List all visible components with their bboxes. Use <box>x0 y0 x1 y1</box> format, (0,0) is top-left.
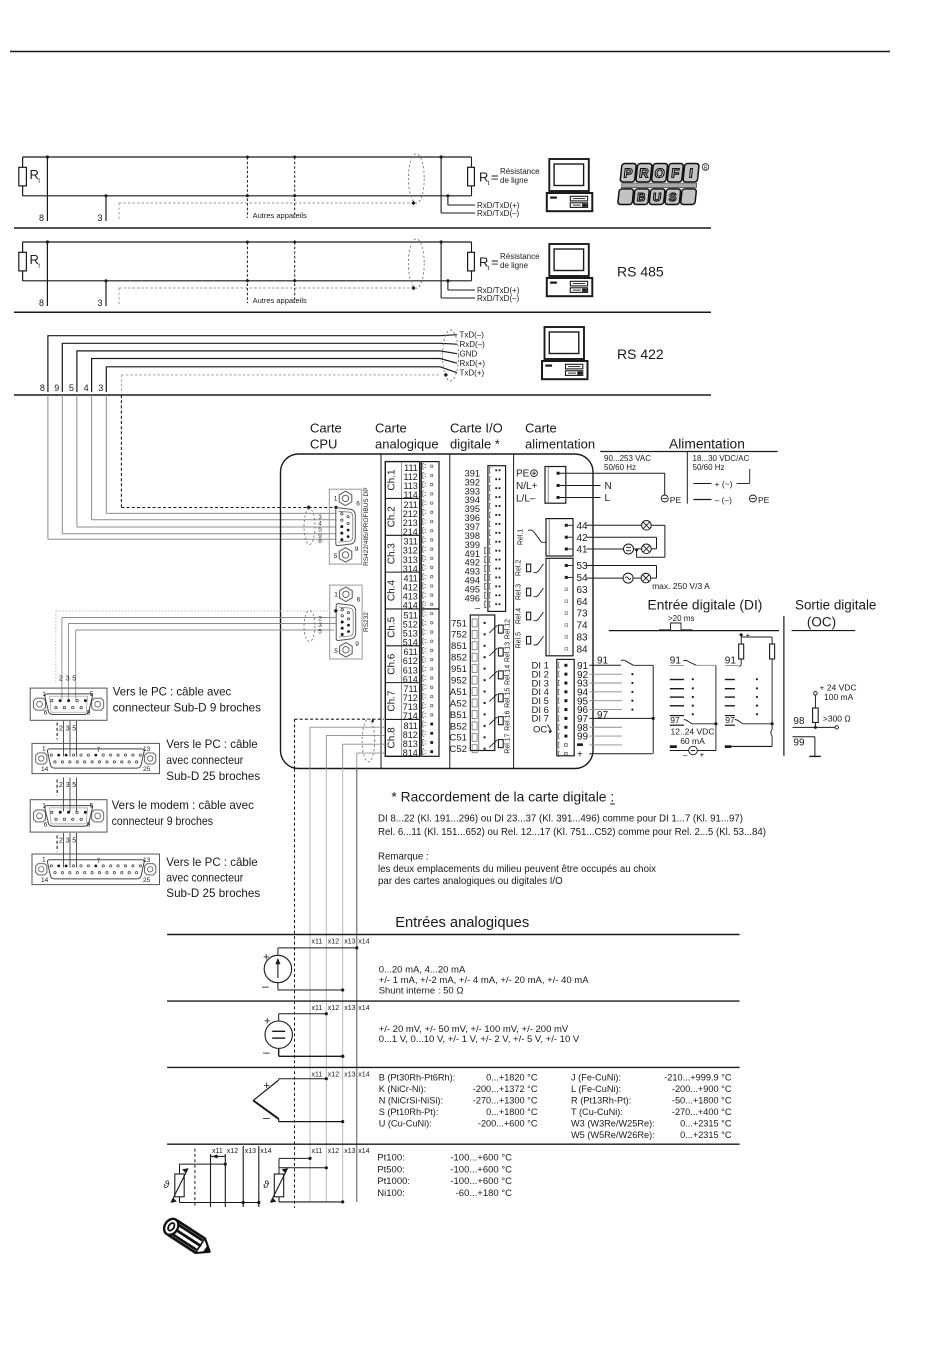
svg-text:RxD/TxD(+): RxD/TxD(+) <box>477 201 520 210</box>
svg-text:5: 5 <box>72 726 76 733</box>
svg-text:6: 6 <box>357 597 361 604</box>
svg-text:9: 9 <box>355 641 359 648</box>
svg-text:Sub-D 25 broches: Sub-D 25 broches <box>166 770 260 783</box>
svg-text:x13: x13 <box>344 1148 355 1155</box>
svg-text:Autres appareils: Autres appareils <box>253 296 307 305</box>
svg-text:Pt500:: Pt500: <box>377 1164 404 1175</box>
svg-text:de ligne: de ligne <box>500 176 529 185</box>
svg-text:B (Pt30Rh-Pt6Rh):: B (Pt30Rh-Pt6Rh): <box>379 1072 456 1082</box>
svg-text:-200...+900 °C: -200...+900 °C <box>672 1084 732 1094</box>
svg-text:814: 814 <box>403 748 418 758</box>
svg-text:3: 3 <box>97 213 102 223</box>
svg-text:-200...+1372 °C: -200...+1372 °C <box>473 1084 538 1094</box>
svg-text:8: 8 <box>39 213 44 223</box>
svg-text:6: 6 <box>44 710 48 717</box>
svg-text:3: 3 <box>98 383 103 393</box>
svg-text:8: 8 <box>39 298 44 308</box>
svg-text:Ch.8: Ch.8 <box>386 727 397 749</box>
svg-text:Rel.2: Rel.2 <box>515 560 522 576</box>
svg-text:ϑ: ϑ <box>164 1179 171 1191</box>
svg-text:t: t <box>38 263 40 270</box>
svg-text:RS232: RS232 <box>363 612 370 632</box>
svg-text:6: 6 <box>44 821 48 828</box>
svg-text:-60...+180 °C: -60...+180 °C <box>456 1188 512 1199</box>
svg-text:-270...+1300 °C: -270...+1300 °C <box>473 1095 538 1105</box>
svg-text:N: N <box>605 481 612 492</box>
svg-text:0...+2315 °C: 0...+2315 °C <box>680 1118 732 1128</box>
svg-text:K (NiCr-Ni):: K (NiCr-Ni): <box>379 1084 426 1094</box>
svg-text:ϑ: ϑ <box>263 1179 270 1191</box>
svg-text:Autres appareils: Autres appareils <box>253 211 307 220</box>
svg-text:L/L–: L/L– <box>516 494 536 505</box>
svg-text:A52: A52 <box>450 698 467 709</box>
svg-text:514: 514 <box>403 638 418 648</box>
svg-text:x11: x11 <box>312 1072 323 1079</box>
svg-text:Entrée digitale (DI): Entrée digitale (DI) <box>648 597 763 613</box>
svg-text:DI 7: DI 7 <box>532 714 549 725</box>
svg-text:=: = <box>491 170 499 185</box>
svg-text:T (Cu-CuNi):: T (Cu-CuNi): <box>571 1107 623 1117</box>
svg-text:RxD(+): RxD(+) <box>460 359 486 368</box>
svg-text:PE: PE <box>670 495 682 505</box>
svg-text:Ch.1: Ch.1 <box>386 469 397 491</box>
svg-text:>300 Ω: >300 Ω <box>823 713 851 723</box>
svg-text:-200...+600 °C: -200...+600 °C <box>478 1118 538 1128</box>
svg-text:12..24 VDC: 12..24 VDC <box>671 726 715 736</box>
svg-text:R (Pt13Rh-Pt):: R (Pt13Rh-Pt): <box>571 1095 631 1105</box>
svg-text:9: 9 <box>87 821 91 828</box>
svg-text:+: + <box>263 952 269 964</box>
svg-text:751: 751 <box>451 618 467 629</box>
svg-text:99: 99 <box>577 732 589 743</box>
svg-text:Rel.17: Rel.17 <box>505 733 512 753</box>
svg-text:41: 41 <box>577 545 589 556</box>
svg-text:5: 5 <box>72 676 76 683</box>
svg-text:Carte: Carte <box>310 421 342 436</box>
svg-text:+: + <box>264 1080 270 1092</box>
svg-text:connecteur 9 broches: connecteur 9 broches <box>112 815 214 828</box>
svg-text:x12: x12 <box>328 1005 339 1012</box>
svg-text:Rel.12: Rel.12 <box>505 619 512 639</box>
svg-text:par des cartes analogiques ou: par des cartes analogiques ou digitales … <box>378 876 563 887</box>
svg-text:314: 314 <box>403 564 418 574</box>
svg-text:9: 9 <box>54 383 59 393</box>
svg-text:0...+2315 °C: 0...+2315 °C <box>680 1130 732 1140</box>
svg-text:B52: B52 <box>450 721 467 732</box>
svg-text:x11: x11 <box>312 1005 323 1012</box>
svg-text:852: 852 <box>451 653 467 664</box>
svg-text:–: – <box>262 979 269 993</box>
svg-text:x11: x11 <box>312 1148 323 1155</box>
svg-text:84: 84 <box>577 644 589 655</box>
svg-text:L (Fe-CuNi):: L (Fe-CuNi): <box>571 1084 621 1094</box>
svg-text:50/60 Hz: 50/60 Hz <box>604 463 636 472</box>
svg-text:2: 2 <box>59 838 63 845</box>
svg-text:-100...+600 °C: -100...+600 °C <box>450 1153 512 1164</box>
svg-text:x14: x14 <box>358 1072 369 1079</box>
svg-text:14: 14 <box>41 766 49 773</box>
svg-text:14: 14 <box>41 877 49 884</box>
svg-text:Sortie digitale: Sortie digitale <box>795 598 876 613</box>
svg-text:Rel.1: Rel.1 <box>518 529 525 545</box>
svg-text:Ch.2: Ch.2 <box>386 506 397 528</box>
svg-text:x12: x12 <box>328 1072 339 1079</box>
svg-text:42: 42 <box>577 533 589 544</box>
svg-text:25: 25 <box>143 766 151 773</box>
svg-text:Remarque :: Remarque : <box>378 852 429 863</box>
svg-text:99: 99 <box>793 737 805 748</box>
svg-text:-210...+999.9 °C: -210...+999.9 °C <box>664 1072 732 1082</box>
svg-text:avec connecteur: avec connecteur <box>166 872 243 885</box>
svg-text:DI 8...22 (Kl. 191...296) ou D: DI 8...22 (Kl. 191...296) ou DI 23...37 … <box>378 814 743 825</box>
svg-text:–: – <box>683 751 688 760</box>
svg-text:x12: x12 <box>227 1148 238 1155</box>
svg-text:44: 44 <box>577 521 589 532</box>
svg-text:+: + <box>264 1016 270 1028</box>
svg-text:114: 114 <box>403 490 417 500</box>
svg-text:97: 97 <box>597 710 609 721</box>
svg-text:R: R <box>704 166 708 172</box>
svg-text:5: 5 <box>334 553 338 560</box>
svg-text:de ligne: de ligne <box>500 261 529 270</box>
svg-text:851: 851 <box>451 641 467 652</box>
svg-text:-100...+600 °C: -100...+600 °C <box>450 1164 512 1175</box>
svg-text:5: 5 <box>90 803 94 810</box>
svg-text:les deux emplacements du milie: les deux emplacements du milieu peuvent … <box>378 864 656 875</box>
svg-text:U (Cu-CuNi):: U (Cu-CuNi): <box>379 1118 432 1128</box>
svg-text:5: 5 <box>90 691 94 698</box>
svg-text:N/L+: N/L+ <box>516 481 538 492</box>
svg-text:x12: x12 <box>328 1148 339 1155</box>
svg-text:– (–): – (–) <box>715 495 733 505</box>
svg-text:5: 5 <box>72 782 76 789</box>
svg-text:Shunt interne : 50 Ω: Shunt interne : 50 Ω <box>379 986 464 997</box>
svg-text:64: 64 <box>577 597 589 608</box>
svg-text:Entrées analogiques: Entrées analogiques <box>395 915 529 931</box>
svg-text:Rel.16: Rel.16 <box>505 710 512 730</box>
svg-text:951: 951 <box>451 664 467 675</box>
svg-text:x11: x11 <box>212 1148 223 1155</box>
svg-text:RxD/TxD(–): RxD/TxD(–) <box>477 209 520 218</box>
svg-text:25: 25 <box>143 877 151 884</box>
svg-text:+: + <box>700 751 705 760</box>
svg-text:S: S <box>668 192 677 204</box>
svg-text:N (NiCrSi-NiSi):: N (NiCrSi-NiSi): <box>379 1095 443 1105</box>
svg-text:Pt1000:: Pt1000: <box>377 1176 410 1187</box>
svg-text:74: 74 <box>577 621 589 632</box>
svg-text:Vers le PC : câble avec: Vers le PC : câble avec <box>113 686 232 699</box>
svg-text:U: U <box>652 192 662 204</box>
svg-text:Alimentation: Alimentation <box>669 437 745 452</box>
svg-text:2: 2 <box>59 782 63 789</box>
svg-text:Ch.5: Ch.5 <box>386 616 397 638</box>
svg-text:Ni100:: Ni100: <box>377 1188 404 1199</box>
svg-text:Carte I/O: Carte I/O <box>450 421 503 436</box>
svg-text:3: 3 <box>66 676 70 683</box>
svg-text:8: 8 <box>318 538 322 545</box>
svg-text:9: 9 <box>355 546 359 553</box>
svg-text:x12: x12 <box>328 939 339 946</box>
svg-text:Ch.6: Ch.6 <box>386 653 397 675</box>
svg-text:t: t <box>38 178 40 185</box>
svg-text:x14: x14 <box>358 939 369 946</box>
svg-text:3: 3 <box>66 726 70 733</box>
svg-text:TxD(+): TxD(+) <box>460 369 485 378</box>
svg-text:=: = <box>491 255 499 270</box>
svg-text:Ch.7: Ch.7 <box>386 690 397 712</box>
svg-text:S (Pt10Rh-Pt):: S (Pt10Rh-Pt): <box>379 1107 439 1117</box>
svg-text:J (Fe-CuNi):: J (Fe-CuNi): <box>571 1072 621 1082</box>
svg-text:Rel.14: Rel.14 <box>505 665 512 685</box>
svg-text:714: 714 <box>403 711 418 721</box>
svg-text:1: 1 <box>42 691 46 698</box>
svg-text:(OC): (OC) <box>807 615 836 630</box>
svg-text:Vers le PC : câble: Vers le PC : câble <box>166 856 257 869</box>
svg-text:Carte: Carte <box>375 421 407 436</box>
svg-text:digitale *: digitale * <box>450 437 500 452</box>
svg-text:0...+1800 °C: 0...+1800 °C <box>486 1107 538 1117</box>
svg-text:W5 (W5Re/W26Re):: W5 (W5Re/W26Re): <box>571 1130 655 1140</box>
svg-text:97: 97 <box>670 715 680 725</box>
svg-text:54: 54 <box>577 573 589 584</box>
svg-text:0...+1820 °C: 0...+1820 °C <box>486 1072 538 1082</box>
svg-text:RS422/485/PROFIBUS DP: RS422/485/PROFIBUS DP <box>363 487 370 565</box>
svg-text:18...30 VDC/AC: 18...30 VDC/AC <box>693 454 750 463</box>
svg-text:3: 3 <box>66 838 70 845</box>
svg-text:100 mA: 100 mA <box>824 692 854 702</box>
svg-text:Rel.4: Rel.4 <box>515 608 522 624</box>
svg-text:max. 250 V/3 A: max. 250 V/3 A <box>652 581 710 591</box>
svg-text:50/60 Hz: 50/60 Hz <box>693 463 725 472</box>
svg-text:98: 98 <box>793 716 805 727</box>
svg-text:O: O <box>654 166 666 181</box>
svg-text:Ch.3: Ch.3 <box>386 543 397 565</box>
svg-text:PE: PE <box>758 495 770 505</box>
svg-text:+ 24 VDC: + 24 VDC <box>820 682 857 692</box>
svg-text:91: 91 <box>670 656 682 667</box>
svg-text:63: 63 <box>577 585 589 596</box>
svg-text:RxD/TxD(+): RxD/TxD(+) <box>477 286 520 295</box>
svg-text:3: 3 <box>97 298 102 308</box>
svg-text:Vers le PC : câble: Vers le PC : câble <box>166 738 257 751</box>
svg-text:1: 1 <box>42 803 46 810</box>
svg-text:Carte: Carte <box>525 421 557 436</box>
svg-text:5: 5 <box>69 383 74 393</box>
svg-text:RxD(–): RxD(–) <box>460 340 486 349</box>
svg-text:F: F <box>671 166 681 181</box>
svg-text:Rel.3: Rel.3 <box>515 584 522 600</box>
svg-text:TxD(–): TxD(–) <box>460 331 485 340</box>
svg-text:x14: x14 <box>358 1005 369 1012</box>
svg-text:83: 83 <box>577 633 589 644</box>
svg-text:6: 6 <box>356 501 360 508</box>
svg-text:60 mA: 60 mA <box>680 736 705 746</box>
svg-text:Vers le modem : câble avec: Vers le modem : câble avec <box>112 799 254 812</box>
svg-text:5: 5 <box>318 629 322 636</box>
svg-text:53: 53 <box>577 561 589 572</box>
svg-text:+: + <box>577 750 583 761</box>
svg-text:91: 91 <box>597 656 609 667</box>
svg-text:Rel. 6...11 (Kl. 151...652) ou: Rel. 6...11 (Kl. 151...652) ou Rel. 12..… <box>378 827 766 838</box>
svg-text:x14: x14 <box>260 1148 271 1155</box>
svg-text:0...20 mA, 4...20 mA: 0...20 mA, 4...20 mA <box>379 965 466 976</box>
svg-text:x13: x13 <box>245 1148 256 1155</box>
svg-text:13: 13 <box>143 746 151 753</box>
svg-text:C52: C52 <box>449 744 467 755</box>
svg-text:Résistance: Résistance <box>500 252 540 261</box>
svg-text:Rel.15: Rel.15 <box>505 688 512 708</box>
svg-text:+: + <box>746 631 751 640</box>
svg-text:90...253 VAC: 90...253 VAC <box>604 454 651 463</box>
svg-text:1: 1 <box>334 496 338 503</box>
svg-text:W3 (W3Re/W25Re):: W3 (W3Re/W25Re): <box>571 1118 655 1128</box>
svg-text:t: t <box>488 180 490 187</box>
svg-text:5: 5 <box>72 838 76 845</box>
svg-text:connecteur Sub-D 9 broches: connecteur Sub-D 9 broches <box>113 702 261 715</box>
svg-text:1: 1 <box>334 592 338 599</box>
svg-text:Pt100:: Pt100: <box>377 1153 404 1164</box>
svg-text:214: 214 <box>403 527 418 537</box>
svg-text:3: 3 <box>66 782 70 789</box>
svg-text:x14: x14 <box>358 1148 369 1155</box>
svg-text:5: 5 <box>334 648 338 655</box>
svg-text:+ (~): + (~) <box>715 479 733 489</box>
svg-text:2: 2 <box>59 726 63 733</box>
svg-text:analogique: analogique <box>375 437 439 452</box>
svg-text:-50...+1800 °C: -50...+1800 °C <box>672 1095 732 1105</box>
svg-text:1: 1 <box>42 746 46 753</box>
svg-text:9: 9 <box>87 710 91 717</box>
svg-text:13: 13 <box>143 857 151 864</box>
svg-text:97: 97 <box>725 715 735 725</box>
svg-text:-100...+600 °C: -100...+600 °C <box>450 1176 512 1187</box>
svg-text:73: 73 <box>577 609 589 620</box>
svg-text:–: – <box>263 1111 270 1125</box>
svg-text:414: 414 <box>403 601 418 611</box>
svg-text:0...1 V, 0...10 V, +/- 1 V, +/: 0...1 V, 0...10 V, +/- 1 V, +/- 2 V, +/-… <box>379 1034 580 1045</box>
svg-text:Résistance: Résistance <box>500 167 540 176</box>
svg-text:RxD/TxD(–): RxD/TxD(–) <box>477 294 520 303</box>
svg-text:x11: x11 <box>312 939 323 946</box>
svg-text:Ch.4: Ch.4 <box>386 580 397 602</box>
svg-text:x13: x13 <box>344 939 355 946</box>
svg-text:752: 752 <box>451 630 467 641</box>
svg-text:B: B <box>636 192 646 204</box>
svg-text:B51: B51 <box>450 710 467 721</box>
svg-text:1: 1 <box>42 856 46 863</box>
svg-text:4: 4 <box>84 383 89 393</box>
svg-text:Rel.13: Rel.13 <box>505 642 512 662</box>
svg-text:OC: OC <box>533 724 547 735</box>
svg-text:–: – <box>475 602 481 612</box>
svg-text:PE: PE <box>516 469 530 480</box>
svg-text:–: – <box>263 1045 270 1059</box>
svg-text:2: 2 <box>59 676 63 683</box>
svg-text:Rel.5: Rel.5 <box>515 632 522 648</box>
svg-text:L: L <box>605 493 611 504</box>
svg-text:t: t <box>488 265 490 272</box>
svg-text:91: 91 <box>725 656 737 667</box>
svg-text:RS 485: RS 485 <box>617 264 664 280</box>
svg-text:-270...+400 °C: -270...+400 °C <box>672 1107 732 1117</box>
svg-text:614: 614 <box>403 674 418 684</box>
svg-text:Sub-D 25 broches: Sub-D 25 broches <box>166 887 260 900</box>
svg-text:A51: A51 <box>450 687 467 698</box>
svg-text:C51: C51 <box>449 733 467 744</box>
svg-text:952: 952 <box>451 676 467 687</box>
svg-text:x13: x13 <box>344 1072 355 1079</box>
svg-text:CPU: CPU <box>310 437 337 452</box>
svg-text:+/- 1 mA, +/-2 mA, +/- 4 mA, +: +/- 1 mA, +/-2 mA, +/- 4 mA, +/- 20 mA, … <box>379 975 590 986</box>
svg-text:GND: GND <box>460 350 478 359</box>
svg-text:8: 8 <box>40 383 45 393</box>
svg-text:alimentation: alimentation <box>525 437 595 452</box>
svg-text:>20 ms: >20 ms <box>668 614 694 623</box>
svg-text:RS 422: RS 422 <box>617 346 664 362</box>
svg-text:x13: x13 <box>344 1005 355 1012</box>
svg-text:* Raccordement de la carte dig: * Raccordement de la carte digitale : <box>391 789 614 805</box>
svg-text:avec connecteur: avec connecteur <box>166 754 243 767</box>
